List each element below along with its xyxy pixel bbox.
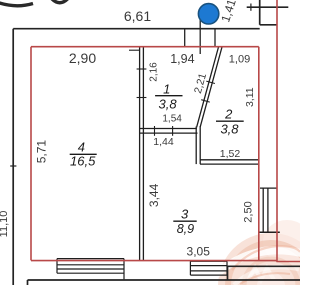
bay bottom line: [259, 231, 280, 233]
svg-text:4: 4: [78, 140, 85, 155]
bottom wall tick 2: [172, 126, 174, 136]
window 2 frame: [190, 261, 227, 275]
red boundary outer right: [276, 0, 278, 261]
room 1 underline: [155, 95, 182, 97]
room2 bottom wall line a: [200, 159, 259, 161]
dimension tick x=215: [214, 29, 216, 47]
room 3 underline: [173, 220, 196, 222]
door tick upper: [137, 68, 147, 70]
bay window line b: [267, 188, 269, 232]
svg-text:3,8: 3,8: [220, 121, 239, 136]
bay window line a: [262, 188, 264, 232]
svg-text:8,9: 8,9: [177, 222, 194, 236]
svg-text:1,52: 1,52: [220, 148, 241, 160]
blue circle marker: [198, 4, 218, 24]
svg-text:1,94: 1,94: [170, 52, 194, 66]
bay top line: [260, 187, 277, 189]
svg-text:16,5: 16,5: [70, 153, 96, 168]
diagonal wall line a: [197, 47, 219, 127]
tick at wall top: [129, 49, 140, 51]
building outline top: [13, 28, 260, 30]
window 1 frame: [57, 259, 124, 280]
svg-text:3,8: 3,8: [159, 97, 178, 112]
bay step vertical: [227, 266, 229, 280]
red boundary left: [30, 47, 32, 261]
room1 bottom wall line b: [140, 132, 198, 134]
top right lower horizontal: [260, 24, 278, 26]
bay step horizontal: [228, 265, 301, 267]
svg-text:3,11: 3,11: [244, 87, 256, 107]
svg-text:3,05: 3,05: [187, 244, 211, 258]
cut-off title text top left: [0, 3, 33, 6]
diagonal wall line b: [200, 47, 222, 127]
leader stem under blue circle: [199, 20, 201, 54]
tick on upper horizontal: [250, 4, 252, 11]
svg-text:3: 3: [181, 206, 189, 221]
svg-text:1,09: 1,09: [229, 53, 250, 65]
svg-text:2,16: 2,16: [148, 62, 159, 82]
svg-text:11,10: 11,10: [0, 211, 10, 238]
svg-text:1,44: 1,44: [153, 136, 174, 148]
svg-text:3,44: 3,44: [147, 183, 161, 207]
red boundary top: [31, 46, 259, 48]
tick on left building line: [10, 165, 16, 167]
room3/room2 wall line b: [199, 126, 201, 164]
svg-text:5,71: 5,71: [35, 140, 49, 164]
building bottom line: [28, 279, 301, 281]
cut-off title letter O bottom: [52, 0, 69, 3]
dimension tick x=184.7: [184, 29, 186, 47]
red boundary bottom: [31, 260, 300, 263]
diagonal tick 1: [206, 81, 215, 83]
svg-text:2: 2: [224, 107, 233, 122]
bottom wall tick 1: [154, 126, 156, 136]
wall room4/room1 line b: [142, 47, 144, 260]
red boundary inner right: [258, 47, 260, 261]
top right vertical wall: [259, 0, 261, 25]
room 4 underline: [70, 153, 97, 155]
stamp watermark bottom right: [214, 220, 320, 285]
room 2 underline: [216, 120, 244, 122]
svg-text:1: 1: [163, 81, 170, 96]
wall room4/room1 line a: [139, 47, 141, 260]
room1 bottom wall line a: [140, 128, 197, 130]
diagonal tick 2: [201, 100, 210, 102]
door tick lower: [137, 97, 147, 99]
svg-text:1,54: 1,54: [162, 114, 182, 125]
svg-text:2,90: 2,90: [69, 50, 96, 66]
building outline left: [12, 29, 14, 285]
svg-text:2,50: 2,50: [243, 201, 255, 222]
bottom left corner vertical: [27, 280, 29, 285]
room3/room2 wall line a: [195, 127, 197, 165]
top right upper horizontal: [247, 6, 289, 8]
svg-text:6,61: 6,61: [124, 8, 151, 24]
room2 bottom wall line b: [200, 163, 259, 165]
